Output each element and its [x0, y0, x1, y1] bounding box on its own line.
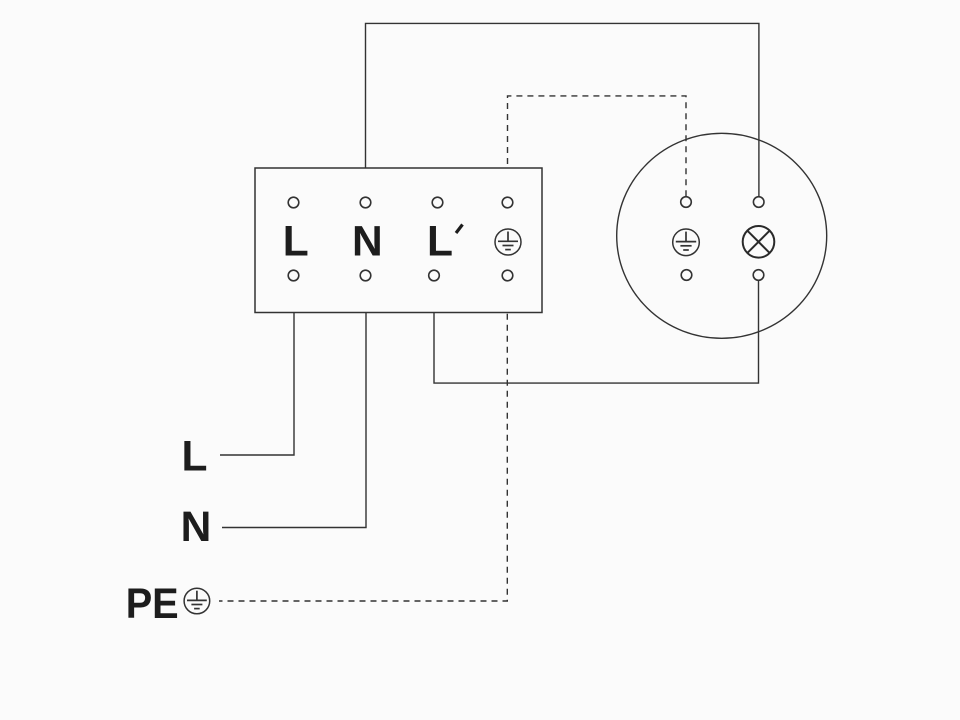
svg-text:L: L [283, 219, 309, 266]
earth symbol (luminaire) [673, 229, 700, 256]
terminal N top [360, 197, 371, 208]
terminal N bottom [360, 270, 371, 281]
earth symbol (terminal block PE) [495, 229, 521, 255]
earth symbol (supply PE) [184, 588, 210, 614]
svg-text:PE: PE [126, 581, 179, 628]
svg-text:N: N [352, 219, 383, 266]
wire PE dashed: terminal block PE to luminaire top-left terminal [508, 96, 687, 197]
svg-text:L: L [182, 434, 208, 481]
luminaire terminal bottom-left [681, 270, 692, 281]
wire L: supply L to terminal block L bottom terminal [220, 281, 294, 455]
wire N-top: terminal block N to luminaire top-right terminal [366, 23, 759, 197]
wire PE dashed: supply PE to terminal block PE bottom terminal [219, 281, 507, 601]
label L' (terminal block) [427, 219, 462, 266]
lamp symbol (luminaire) [743, 226, 775, 258]
luminaire terminal top-right [753, 197, 764, 208]
luminaire terminal bottom-right [753, 270, 764, 281]
wire L'-bottom: terminal block L' to luminaire bottom-right terminal [434, 281, 759, 384]
terminal L top [288, 197, 299, 208]
svg-text:L: L [427, 219, 453, 266]
terminal PE top [502, 197, 513, 208]
terminal block body [255, 168, 542, 313]
luminaire terminal PE top [681, 197, 692, 208]
terminal L' top [432, 197, 443, 208]
svg-text:N: N [181, 504, 212, 551]
wire N: supply N to terminal block N bottom terminal [222, 281, 366, 528]
luminaire body (sensor lamp) [617, 133, 827, 338]
terminal L bottom [288, 270, 299, 281]
terminal PE bottom [502, 270, 513, 281]
terminal L' bottom [429, 270, 440, 281]
